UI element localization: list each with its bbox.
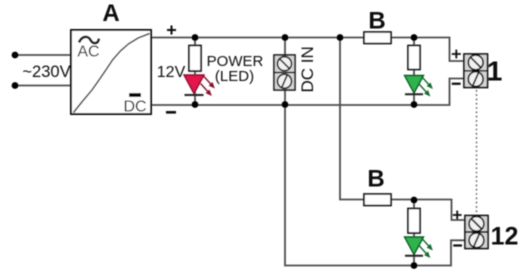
node mains L terminal bbox=[12, 52, 19, 59]
converter curve bbox=[74, 34, 150, 113]
fuse B2 bbox=[364, 194, 391, 206]
svg-text:12: 12 bbox=[491, 223, 519, 251]
resistor LED12 bbox=[408, 209, 420, 234]
node DC IN bottom bbox=[282, 101, 289, 108]
label - (terminal 1) bbox=[452, 83, 461, 85]
node after fuse B1 bbox=[411, 34, 418, 41]
LED 1 (green) bbox=[405, 76, 424, 95]
svg-text:B: B bbox=[368, 8, 385, 35]
LED power light arrows bbox=[201, 76, 215, 95]
wire mains bottom bbox=[15, 85, 71, 87]
AC tilde symbol bbox=[79, 37, 99, 43]
node power LED bottom bbox=[192, 101, 199, 108]
node branch B2 bbox=[337, 34, 344, 41]
wire power LED branch bbox=[194, 38, 196, 105]
node power LED top bbox=[192, 34, 199, 41]
svg-text:~230V: ~230V bbox=[22, 63, 70, 81]
svg-text:DC: DC bbox=[123, 99, 146, 116]
power supply box A bbox=[71, 30, 151, 114]
node DC IN top bbox=[282, 34, 289, 41]
svg-text:A: A bbox=[102, 0, 119, 27]
node LED12 bottom bbox=[411, 262, 418, 269]
label + (terminal 12) bbox=[453, 211, 462, 220]
LED 12 light arrows bbox=[419, 238, 432, 257]
LED 12 (green) bbox=[405, 237, 424, 256]
wire mains top bbox=[15, 54, 71, 56]
node mains N terminal bbox=[12, 82, 19, 89]
node after fuse B2 bbox=[411, 197, 418, 204]
label - (supply) bbox=[166, 111, 176, 114]
DC bar symbol bbox=[129, 93, 141, 97]
svg-text:12V: 12V bbox=[157, 64, 186, 81]
wire LED12 branch bbox=[413, 200, 415, 266]
wire - rail bottom bbox=[151, 79, 464, 106]
node LED1 bottom bbox=[411, 101, 418, 108]
svg-text:B: B bbox=[367, 166, 384, 193]
svg-text:DC IN: DC IN bbox=[298, 46, 317, 92]
LED 1 light arrows bbox=[419, 77, 432, 96]
label - (terminal 12) bbox=[453, 244, 462, 246]
wire + rail top bbox=[151, 38, 464, 62]
terminal block 1 bbox=[464, 54, 488, 88]
wire LED1 branch bbox=[413, 38, 415, 105]
terminal block DC IN bbox=[274, 55, 295, 90]
LED power (red) bbox=[184, 75, 204, 95]
svg-text:1: 1 bbox=[487, 56, 503, 87]
fuse B1 bbox=[364, 32, 391, 44]
resistor LED1 bbox=[408, 46, 420, 70]
svg-text:AC: AC bbox=[77, 44, 99, 61]
label + (supply) bbox=[167, 26, 176, 35]
terminal block 12 bbox=[465, 216, 488, 249]
wire DC IN vertical bbox=[284, 38, 286, 105]
svg-text:(LED): (LED) bbox=[215, 68, 254, 85]
label + (terminal 1) bbox=[452, 50, 461, 59]
dotted continuation line bbox=[476, 90, 478, 213]
resistor power LED bbox=[189, 46, 201, 72]
wire branch down to second fuse bbox=[340, 38, 465, 221]
wire bottom return rail bbox=[285, 105, 465, 266]
